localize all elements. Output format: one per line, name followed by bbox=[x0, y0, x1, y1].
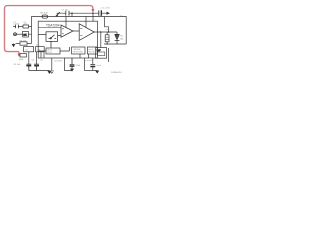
opamp input marks bbox=[62, 29, 82, 36]
svg-text:C2 22uF: C2 22uF bbox=[54, 61, 63, 63]
svg-text:C4: C4 bbox=[32, 60, 36, 62]
ground sgnd bbox=[50, 71, 54, 74]
bottom right rail bbox=[104, 43, 126, 45]
svg-text:C3 1uF: C3 1uF bbox=[13, 64, 21, 66]
IC box U1 TDA7294 bbox=[38, 21, 97, 58]
svg-text:C7 10u: C7 10u bbox=[62, 9, 70, 11]
pin 4 wire bbox=[51, 58, 53, 71]
wire R4 top bbox=[106, 32, 108, 44]
svg-text:D93AU016: D93AU016 bbox=[111, 71, 122, 74]
capacitor C9 plates bbox=[90, 65, 95, 67]
speaker plates bbox=[115, 34, 120, 40]
resistor R7 external bbox=[24, 47, 34, 52]
resistor R4 vertical bbox=[105, 35, 109, 42]
wire input coupling bbox=[13, 26, 32, 28]
resistor R6 on feedback rail bbox=[42, 15, 48, 18]
svg-text:PROTECT: PROTECT bbox=[88, 52, 96, 54]
pin stub junction bbox=[71, 13, 73, 16]
ground symbol input bbox=[12, 44, 16, 47]
feedback top rail wire bbox=[32, 17, 127, 45]
red arrow into +Vs node bbox=[91, 9, 94, 12]
ground symbol left rail bbox=[47, 71, 51, 74]
capacitor C6 plates bbox=[70, 58, 75, 69]
svg-text:+Vs(+35V): +Vs(+35V) bbox=[100, 8, 110, 10]
svg-text:0.47uF: 0.47uF bbox=[13, 24, 20, 26]
wire pins bottom left bbox=[29, 52, 44, 64]
ground rail bottom right bbox=[84, 70, 97, 72]
ground input bbox=[13, 43, 15, 46]
capacitor C3 red target box bbox=[20, 54, 26, 57]
junction dot output bbox=[108, 31, 110, 33]
underline label bbox=[38, 26, 61, 28]
wire mute to opamp bbox=[51, 36, 61, 49]
bootstrap block inner bbox=[97, 52, 104, 56]
pin stub 7 bbox=[92, 13, 94, 21]
supply wire +Vs bbox=[57, 12, 109, 14]
speaker triangle bbox=[115, 35, 119, 40]
ground symbol C6 bbox=[70, 69, 74, 72]
junction dot +Vs bbox=[92, 12, 94, 14]
ground symbol right rail bbox=[95, 71, 99, 74]
mute block M1 bbox=[46, 32, 58, 42]
svg-text:8Ω: 8Ω bbox=[120, 38, 123, 40]
svg-text:R3 22K: R3 22K bbox=[19, 41, 27, 43]
pin gnd wire bbox=[83, 58, 85, 71]
wire b3 left bbox=[38, 47, 69, 51]
junction dot A bbox=[71, 12, 73, 14]
bootstrap wire pin 6 bbox=[105, 17, 109, 32]
input jack J1 bbox=[14, 33, 17, 36]
resistor R3 bbox=[20, 42, 27, 45]
wire bootstrap to output bbox=[100, 32, 102, 48]
svg-text:OUT: OUT bbox=[106, 29, 111, 31]
capacitor C5 plates bbox=[34, 64, 39, 70]
svg-text:6 SGND: 6 SGND bbox=[85, 60, 93, 62]
resistor R1 bbox=[23, 25, 29, 28]
pin 1 wire bbox=[65, 58, 73, 71]
svg-text:SHUTDOWN: SHUTDOWN bbox=[73, 52, 84, 54]
capacitor C7 plates on supply wire bbox=[66, 11, 69, 16]
thermal block B1 bbox=[72, 47, 85, 54]
op-amp U1B power stage bbox=[79, 24, 94, 41]
capacitor C8 supply plates bbox=[99, 10, 102, 15]
wire down right bbox=[108, 48, 110, 62]
red arrow into C3 node bbox=[18, 54, 21, 57]
soft start block B3 bbox=[46, 48, 60, 54]
svg-text:10uF: 10uF bbox=[96, 65, 101, 67]
svg-text:22uF: 22uF bbox=[76, 65, 81, 67]
wire R2 to node bbox=[28, 27, 31, 44]
capacitor C4 plates bbox=[26, 64, 31, 70]
svg-text:C5: C5 bbox=[40, 60, 44, 62]
capacitor C1 plates bbox=[16, 25, 19, 29]
ground rail bottom left bbox=[29, 70, 50, 72]
svg-text:R6 22K: R6 22K bbox=[41, 13, 49, 15]
diode D1 mark bbox=[56, 12, 60, 16]
svg-text:22K: 22K bbox=[25, 50, 29, 52]
speaker D2 wires bbox=[116, 32, 118, 44]
svg-text:RL: RL bbox=[120, 36, 124, 38]
svg-text:22K: 22K bbox=[23, 34, 27, 36]
op-amp U1A bbox=[61, 25, 73, 37]
pin stub 3 bbox=[65, 17, 67, 28]
wire box input bbox=[38, 34, 46, 36]
resistor R2 bbox=[23, 31, 29, 37]
pin stubs blocks bbox=[80, 54, 89, 58]
red highlight loop bbox=[5, 6, 93, 55]
wire jack to R2 bbox=[17, 33, 23, 35]
wire between stages bbox=[73, 30, 79, 32]
wire gnd to R3 bbox=[16, 43, 21, 45]
switch symbol bbox=[49, 35, 57, 39]
svg-text:ST-BY: ST-BY bbox=[47, 52, 53, 54]
svg-text:TDA7294: TDA7294 bbox=[46, 24, 60, 28]
pin stub 13 bbox=[85, 17, 87, 28]
terminal arrow +Vs bbox=[107, 12, 111, 15]
svg-text:10uF: 10uF bbox=[19, 59, 24, 61]
wire R3 to node bbox=[27, 43, 32, 45]
protection block B2 bbox=[87, 47, 97, 54]
resistor R8 external bbox=[36, 47, 45, 52]
output wire bbox=[94, 31, 117, 33]
bootstrap block outer bbox=[96, 48, 107, 59]
capacitor C9 wire bbox=[92, 58, 94, 71]
